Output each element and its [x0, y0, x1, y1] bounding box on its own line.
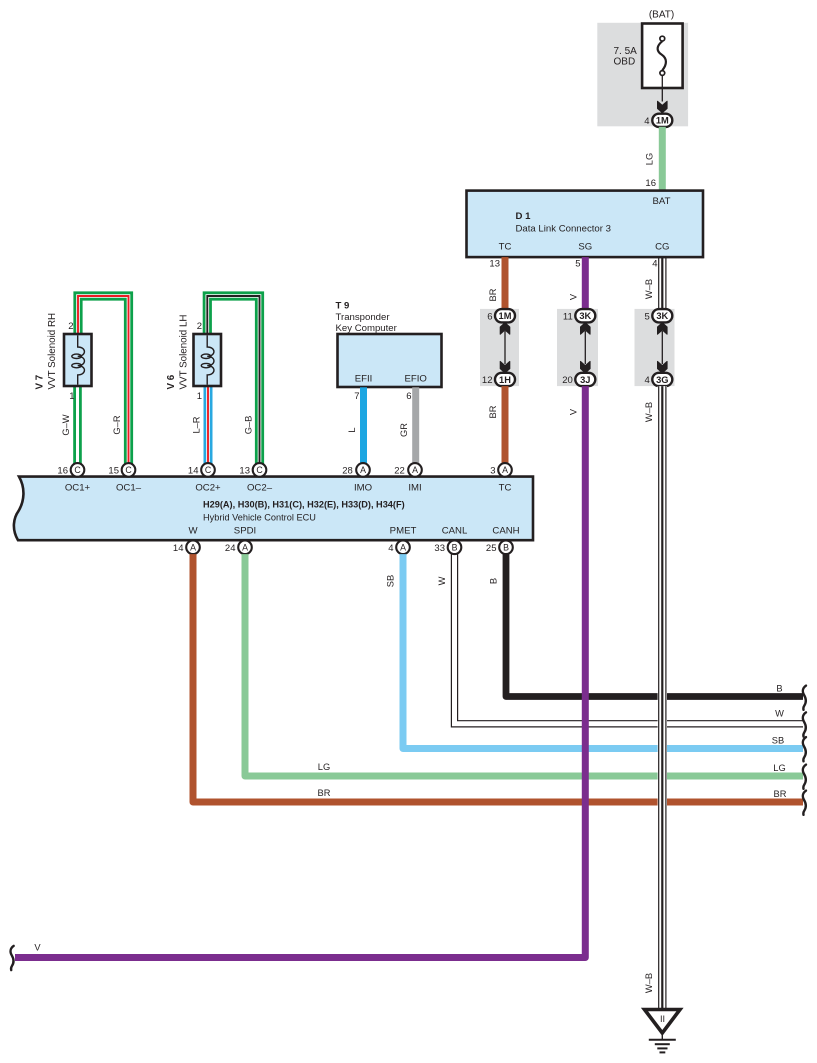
svg-text:OC2+: OC2+: [195, 483, 221, 494]
svg-text:V 6: V 6: [166, 374, 177, 389]
ground symbol: [645, 1010, 681, 1053]
svg-text:A: A: [190, 543, 196, 553]
svg-text:BR: BR: [488, 288, 498, 301]
label BR (mid horizontal): [318, 788, 331, 798]
junction block (gray) for fuse OBD: [597, 23, 688, 127]
connector 1H pin 12: [482, 373, 515, 386]
svg-text:VVT Solenoid RH: VVT Solenoid RH: [47, 313, 58, 390]
break symbol B wire: [803, 686, 806, 710]
svg-text:CANH: CANH: [492, 526, 519, 537]
wire G-B from V6 pin 2 to ECU OC2- (loop): [207, 296, 259, 464]
svg-text:W–B: W–B: [644, 279, 654, 299]
svg-text:C: C: [74, 465, 81, 475]
svg-text:VVT Solenoid LH: VVT Solenoid LH: [179, 315, 190, 390]
label W (right edge): [775, 709, 784, 719]
svg-text:OC2–: OC2–: [247, 483, 273, 494]
VVT solenoid V7: [64, 334, 92, 386]
svg-text:A: A: [360, 465, 366, 475]
pin 7 label T9: [354, 391, 359, 402]
svg-text:4: 4: [652, 259, 657, 270]
svg-text:20: 20: [562, 375, 573, 386]
double arrow 3K-3G: [658, 323, 668, 373]
pin 13 label (D1 TC): [489, 259, 500, 270]
label W: [437, 576, 447, 585]
svg-text:4: 4: [645, 375, 650, 386]
pin 6 label T9: [406, 391, 411, 402]
wire W-B from D1 CG to connector 3K: [659, 257, 666, 310]
ECU pin 28 (IMO): [342, 463, 372, 493]
svg-text:G–B: G–B: [244, 416, 254, 435]
svg-text:14: 14: [188, 466, 199, 477]
label (BAT): [649, 10, 674, 21]
svg-text:(BAT): (BAT): [649, 10, 674, 21]
svg-text:Data Link Connector 3: Data Link Connector 3: [516, 224, 611, 235]
svg-text:A: A: [412, 465, 418, 475]
svg-text:7: 7: [354, 391, 359, 402]
svg-text:D 1: D 1: [516, 211, 532, 222]
svg-text:PMET: PMET: [390, 526, 417, 537]
wire G-R from V7 pin 2 to ECU OC1- (loop): [78, 296, 129, 464]
ECU pin 13 (OC2-): [239, 463, 272, 493]
svg-text:1H: 1H: [499, 375, 511, 385]
svg-text:CANL: CANL: [442, 526, 468, 537]
connector 3K pin 5: [645, 309, 673, 322]
connector 3K pin 11: [563, 309, 595, 322]
break symbol V wire (left): [11, 946, 14, 970]
svg-text:13: 13: [489, 259, 500, 270]
break symbol SB wire: [803, 737, 806, 761]
svg-text:EFIO: EFIO: [405, 374, 427, 385]
svg-text:L: L: [347, 427, 357, 432]
label 7.5A OBD: [614, 46, 638, 68]
fuse element symbol: [658, 36, 666, 75]
svg-text:W–B: W–B: [644, 402, 654, 422]
wire W from ECU CANL pin 33 to right edge (double line): [451, 554, 803, 727]
svg-text:V: V: [569, 408, 579, 415]
label LG (mid horizontal): [318, 762, 330, 772]
svg-text:1: 1: [197, 391, 202, 402]
svg-text:3G: 3G: [656, 375, 668, 385]
label W-B (below 3G): [644, 402, 654, 422]
connector 1M pin 6: [487, 309, 515, 322]
double arrow 3K-3J: [581, 323, 591, 373]
connector 3J pin 20: [562, 373, 595, 386]
Hybrid Vehicle Control ECU box: [14, 477, 533, 541]
pin 1 label V7: [69, 391, 74, 402]
svg-text:W–B: W–B: [644, 973, 654, 993]
pin 4 label (D1 CG): [652, 259, 657, 270]
svg-text:1: 1: [69, 391, 74, 402]
svg-text:2: 2: [68, 321, 73, 332]
label W-B (near ground): [644, 973, 654, 993]
svg-text:IMI: IMI: [408, 483, 421, 494]
svg-text:BR: BR: [488, 405, 498, 418]
label SB: [386, 575, 396, 587]
pin 16 label (D1 BAT): [645, 178, 656, 189]
wire LG from ECU SPDI pin 24 to right edge: [245, 554, 803, 776]
label LG: [645, 153, 655, 165]
wire BR from 1H to ECU TC pin 3: [502, 386, 509, 463]
label LG (right edge): [773, 763, 785, 773]
connector 1M pin 4 (top): [644, 114, 672, 127]
svg-text:3: 3: [490, 466, 495, 477]
svg-text:OC1–: OC1–: [116, 483, 142, 494]
svg-text:11: 11: [563, 311, 573, 322]
svg-text:B: B: [503, 543, 509, 553]
label BR (above ECU): [488, 405, 498, 418]
connector 3G pin 4: [645, 373, 673, 386]
svg-text:12: 12: [482, 375, 493, 386]
svg-text:3K: 3K: [579, 311, 591, 321]
wire GR from T9 EFIO to ECU IMI: [412, 387, 419, 464]
wire V from 3J to left edge: [15, 386, 585, 957]
svg-text:LG: LG: [645, 153, 655, 165]
label G-R: [112, 415, 122, 434]
VVT solenoid V6: [194, 334, 222, 386]
svg-text:B: B: [452, 543, 458, 553]
svg-text:BAT: BAT: [653, 196, 671, 207]
svg-text:EFII: EFII: [355, 374, 373, 385]
ECU pin 14 (OC2+): [188, 463, 221, 493]
arrow into connector 1M: [658, 101, 668, 113]
svg-text:4: 4: [388, 543, 393, 554]
svg-text:TC: TC: [499, 242, 512, 253]
wire G-W from V7 pin 1 to ECU OC1+: [73, 386, 82, 464]
double arrow 1M-1H: [500, 323, 510, 373]
svg-text:2: 2: [197, 321, 202, 332]
label B (right edge): [776, 684, 782, 694]
junction connector block 3K/3J (gray): [557, 309, 598, 386]
svg-text:5: 5: [645, 311, 650, 322]
svg-text:6: 6: [406, 391, 411, 402]
wire L-R from V6 pin 1 to ECU OC2+: [204, 386, 213, 464]
wire SB from ECU PMET pin 4 to right edge: [403, 554, 803, 748]
svg-text:1M: 1M: [656, 116, 669, 126]
label SB (right edge): [772, 736, 784, 746]
svg-text:SB: SB: [772, 736, 784, 746]
svg-text:IMO: IMO: [354, 483, 372, 494]
wire B from ECU CANH pin 25 to right edge: [506, 554, 803, 696]
svg-text:16: 16: [645, 178, 656, 189]
svg-text:T 9: T 9: [336, 301, 350, 312]
wire LG from connector 1M to D1 BAT: [659, 127, 666, 192]
svg-text:C: C: [256, 465, 263, 475]
label B: [489, 578, 499, 584]
pin 1 label V6: [197, 391, 202, 402]
ECU pin 14 (W, bottom): [173, 526, 200, 555]
svg-text:GR: GR: [399, 423, 409, 437]
junction connector block 1M/1H (gray): [480, 309, 519, 386]
label L-R: [192, 416, 202, 433]
label G-W: [61, 414, 71, 435]
svg-text:G–W: G–W: [61, 414, 71, 435]
svg-text:B: B: [776, 684, 782, 694]
svg-text:25: 25: [486, 543, 497, 554]
wire V from D1 SG to connector 3K: [582, 257, 589, 310]
D1 Data Link Connector 3 box: [467, 191, 704, 258]
svg-text:22: 22: [394, 466, 405, 477]
svg-text:Hybrid Vehicle Control ECU: Hybrid Vehicle Control ECU: [203, 513, 316, 523]
svg-text:LG: LG: [318, 762, 330, 772]
svg-text:OC1+: OC1+: [65, 483, 91, 494]
svg-text:W: W: [775, 709, 784, 719]
svg-text:V 7: V 7: [35, 374, 46, 389]
svg-text:3K: 3K: [656, 311, 668, 321]
svg-text:BR: BR: [774, 789, 787, 799]
label BR (right edge): [774, 789, 787, 799]
svg-text:6: 6: [487, 311, 492, 322]
svg-text:15: 15: [108, 466, 119, 477]
svg-text:V: V: [34, 943, 41, 953]
label T9 Transponder Key Computer: [336, 301, 398, 335]
pin 2 label V7: [68, 321, 73, 332]
wire BR from ECU W pin 14 to right edge: [193, 554, 803, 802]
label V7 VVT Solenoid RH: [35, 313, 59, 390]
wire from fuse to arrow: [661, 76, 663, 102]
svg-text:CG: CG: [655, 242, 669, 253]
wire L from T9 EFII to ECU IMO: [360, 387, 367, 464]
label G-B: [244, 416, 254, 435]
svg-text:14: 14: [173, 543, 184, 554]
label V (below 3J): [569, 408, 579, 415]
ECU pin 3 (TC): [490, 463, 512, 493]
ECU pin 25 (CANH, bottom): [486, 526, 520, 555]
svg-text:A: A: [400, 543, 406, 553]
svg-text:Transponder: Transponder: [336, 312, 391, 323]
wire W-B from 3G to ground: [658, 386, 667, 1009]
svg-text:II: II: [660, 1014, 665, 1024]
ECU pin 4 (PMET, bottom): [388, 526, 416, 555]
ECU pin 16 (OC1+): [57, 463, 90, 493]
svg-text:28: 28: [342, 466, 353, 477]
svg-text:W: W: [188, 526, 198, 537]
svg-text:7. 5A: 7. 5A: [614, 46, 638, 57]
svg-text:A: A: [502, 465, 508, 475]
svg-text:3J: 3J: [580, 375, 590, 385]
label GR: [399, 423, 409, 437]
svg-text:A: A: [242, 543, 248, 553]
svg-text:SPDI: SPDI: [234, 526, 256, 537]
pin 2 label V6: [197, 321, 202, 332]
ECU pin 24 (SPDI, bottom): [225, 526, 256, 555]
svg-text:SB: SB: [386, 575, 396, 587]
svg-text:5: 5: [575, 259, 580, 270]
svg-text:LG: LG: [773, 763, 785, 773]
wire BR from D1 TC to connector 1M: [502, 257, 509, 310]
svg-text:C: C: [205, 465, 212, 475]
svg-text:13: 13: [239, 466, 250, 477]
svg-text:24: 24: [225, 543, 236, 554]
ECU pin 22 (IMI): [394, 463, 422, 493]
svg-text:B: B: [489, 578, 499, 584]
svg-text:1M: 1M: [499, 311, 512, 321]
label V6 VVT Solenoid LH: [166, 315, 190, 390]
T9 Transponder Key Computer box: [338, 334, 442, 387]
pin 5 label (D1 SG): [575, 259, 580, 270]
svg-text:TC: TC: [499, 483, 512, 494]
svg-text:OBD: OBD: [614, 57, 636, 68]
svg-text:V: V: [569, 293, 579, 300]
svg-text:16: 16: [57, 466, 68, 477]
label L: [347, 427, 357, 432]
svg-text:33: 33: [434, 543, 445, 554]
svg-text:L–R: L–R: [192, 416, 202, 433]
svg-text:C: C: [125, 465, 132, 475]
svg-text:SG: SG: [578, 242, 592, 253]
junction connector block 3K/3G (gray): [635, 309, 675, 386]
svg-text:4: 4: [644, 116, 649, 127]
svg-text:G–R: G–R: [112, 415, 122, 434]
label V (below D1): [569, 293, 579, 300]
fuse 7.5A OBD box: [642, 24, 683, 89]
label W-B (below D1): [644, 279, 654, 299]
ECU pin 15 (OC1-): [108, 463, 141, 493]
ECU pin 33 (CANL, bottom): [434, 526, 468, 555]
svg-text:Key Computer: Key Computer: [336, 323, 398, 334]
break symbol W wire: [803, 712, 806, 736]
break symbol BR wire: [803, 791, 806, 815]
label BR: [488, 288, 498, 301]
svg-text:BR: BR: [318, 788, 331, 798]
svg-text:H29(A), H30(B), H31(C), H32(E): H29(A), H30(B), H31(C), H32(E), H33(D), …: [203, 500, 405, 510]
break symbol LG wire: [803, 765, 806, 789]
svg-text:W: W: [437, 576, 447, 585]
label V (bottom left): [34, 943, 41, 953]
